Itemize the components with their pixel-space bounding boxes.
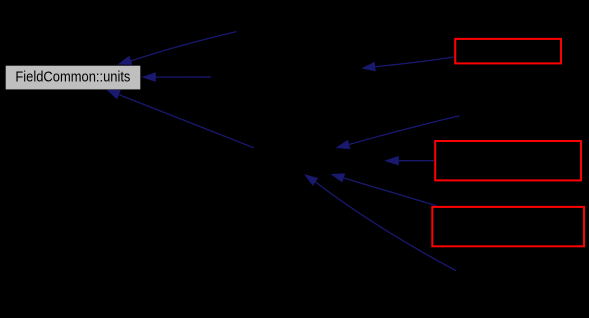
arrowhead E7: [304, 174, 318, 186]
red node 2 (middle right, truncated): [435, 141, 581, 180]
edge E3 : central hidden node -> FieldCommon::units: [119, 95, 254, 148]
edge E2 : middle hidden node -> FieldCommon::units: [156, 76, 211, 78]
edge E6 : red node 3 -> central hidden node: [344, 178, 437, 206]
svg-text:FieldCommon::units: FieldCommon::units: [15, 70, 130, 86]
edge E7 : bottom hidden node -> central hidden node: [316, 182, 457, 271]
arrowhead E2: [141, 72, 156, 82]
arrowhead E8: [361, 62, 376, 72]
node FieldCommon::units (current node, gray): [6, 66, 141, 90]
arrowhead E4: [336, 140, 351, 149]
arrowhead E6: [330, 173, 345, 182]
red node 3 (lower right, truncated): [432, 207, 584, 246]
arrowhead E1: [118, 56, 133, 65]
red node 1 (top right, truncated): [455, 39, 561, 64]
arrowhead E5: [384, 156, 399, 166]
edge E1 : top hidden node -> FieldCommon::units: [131, 32, 237, 61]
edge E4 : hidden node X -> central hidden node: [349, 116, 460, 145]
edge E5 : red node 2 -> central hidden node: [399, 160, 434, 162]
arrowhead E3: [107, 90, 121, 100]
edge E8 : red node 1 -> middle hidden node: [375, 57, 454, 67]
